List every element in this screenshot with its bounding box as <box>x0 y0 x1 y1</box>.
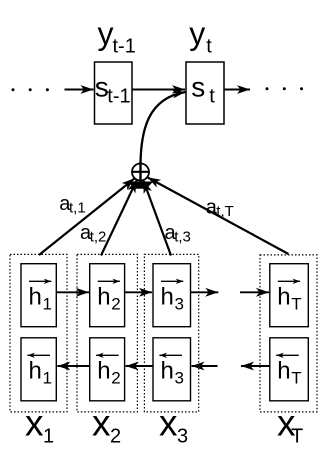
label a_t,3 <box>165 222 191 246</box>
forward wire into h_T <box>240 291 269 293</box>
svg-text:1: 1 <box>43 294 52 313</box>
sum node circle-plus <box>128 162 154 189</box>
label x_3 <box>159 403 188 448</box>
attention line a_t,T from block x_T to sum node <box>148 177 289 254</box>
svg-text:1: 1 <box>43 368 52 387</box>
label s_t-1 <box>95 71 131 107</box>
attention line a_t,3 from block x_3 to sum node <box>143 180 171 255</box>
svg-text:x: x <box>92 403 111 444</box>
svg-text:T: T <box>291 294 301 313</box>
svg-text:y: y <box>189 15 205 51</box>
forward h_1 vector arrow <box>29 280 51 282</box>
context curve arrow from sum node to s_t <box>141 92 186 164</box>
backward cell h_2 box <box>90 338 125 401</box>
svg-text:3: 3 <box>175 368 184 387</box>
svg-text:t-1: t-1 <box>107 86 130 108</box>
svg-text:h: h <box>161 284 174 311</box>
svg-text:T: T <box>291 425 303 447</box>
box s_t-1 <box>95 62 133 124</box>
svg-text:t,2: t,2 <box>90 229 107 246</box>
label x_1 <box>25 403 54 448</box>
backward label h_T <box>277 358 301 388</box>
svg-text:t,T: t,T <box>216 203 234 220</box>
encoder block x_1 dotted box <box>10 254 67 412</box>
forward label h_T <box>277 284 301 314</box>
backward wire out of h_T <box>241 365 270 367</box>
attention line a_t,2 from block x_2 to sum node <box>101 180 137 256</box>
label x_T <box>277 403 303 448</box>
svg-text:h: h <box>97 358 110 385</box>
forward h_2 vector arrow <box>98 280 120 282</box>
backward cell h_3 box <box>153 338 191 401</box>
backward h_3 vector arrow <box>159 354 182 356</box>
backward label h_1 <box>29 358 52 388</box>
label s_t <box>191 71 215 107</box>
svg-text:3: 3 <box>177 425 188 447</box>
svg-text:1: 1 <box>43 425 54 447</box>
encoder block x_2 dotted box <box>77 254 137 412</box>
wire arrow s_t-1 to s_t <box>132 89 185 91</box>
left ellipsis dots <box>12 88 49 91</box>
wire arrow into box s_t-1 <box>65 89 94 91</box>
svg-text:2: 2 <box>110 425 121 447</box>
label a_t,T <box>206 196 234 220</box>
backward h_1 vector arrow <box>27 354 50 356</box>
label y_t-1 <box>98 15 136 57</box>
backward wire h_2 to h_1 <box>57 365 90 367</box>
svg-text:T: T <box>291 368 301 387</box>
forward h_T vector arrow <box>278 280 300 282</box>
forward cell h_3 box <box>153 264 191 327</box>
backward h_T vector arrow <box>276 354 299 356</box>
label a_t,1 <box>59 193 85 217</box>
svg-text:2: 2 <box>111 368 120 387</box>
svg-text:y: y <box>98 15 114 51</box>
backward cell h_T box <box>270 338 309 401</box>
svg-text:h: h <box>277 284 290 311</box>
svg-text:t: t <box>206 36 212 58</box>
forward wire h_1 to h_2 <box>56 291 89 293</box>
svg-text:t: t <box>209 86 215 108</box>
box s_t <box>186 62 224 124</box>
forward label h_3 <box>161 284 184 314</box>
svg-text:h: h <box>29 358 42 385</box>
forward cell h_T box <box>270 264 309 327</box>
forward cell h_2 box <box>90 264 125 327</box>
svg-text:h: h <box>277 358 290 385</box>
svg-text:s: s <box>191 71 205 102</box>
forward wire h_2 to h_3 <box>125 291 152 293</box>
forward wire out of h_3 <box>191 291 219 293</box>
label a_t,2 <box>80 222 106 246</box>
backward wire h_3 to h_2 <box>126 365 153 367</box>
encoder block x_T dotted box <box>260 255 317 412</box>
label y_t <box>189 15 212 57</box>
svg-text:3: 3 <box>175 294 184 313</box>
label x_2 <box>92 403 121 448</box>
backward cell h_1 box <box>21 338 56 401</box>
svg-text:h: h <box>29 284 42 311</box>
forward h_3 vector arrow <box>161 280 183 282</box>
backward label h_2 <box>97 358 120 388</box>
forward cell h_1 box <box>21 264 56 327</box>
svg-text:t-1: t-1 <box>113 36 136 58</box>
backward h_2 vector arrow <box>96 354 119 356</box>
svg-text:x: x <box>159 403 178 444</box>
encoder block x_3 dotted box <box>144 254 198 412</box>
svg-text:x: x <box>25 403 44 444</box>
wire arrow out of s_t <box>224 89 250 91</box>
svg-text:h: h <box>161 358 174 385</box>
backward wire into h_3 <box>192 365 218 367</box>
svg-text:h: h <box>97 284 110 311</box>
attention line a_t,1 from block x_1 to sum node <box>39 178 135 255</box>
svg-text:2: 2 <box>111 294 120 313</box>
svg-text:t,1: t,1 <box>69 199 86 216</box>
forward label h_2 <box>97 284 120 314</box>
right ellipsis dots <box>266 87 304 90</box>
forward label h_1 <box>29 284 52 314</box>
backward label h_3 <box>161 358 184 388</box>
svg-text:t,3: t,3 <box>174 229 191 246</box>
